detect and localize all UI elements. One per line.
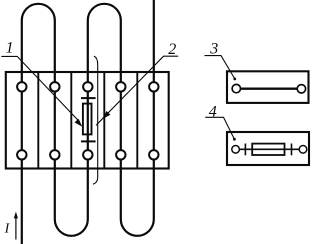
arrowhead leader 2 — [103, 111, 111, 119]
weld tick lower — [81, 140, 96, 142]
arrowhead current — [14, 212, 18, 219]
leader line for label 1 — [1, 56, 80, 122]
link body 4 (plate of link with fuse insert) — [227, 132, 309, 165]
leader line for label 3 — [205, 56, 235, 79]
fuse element 2 (narrow neck insert on strip 3) — [83, 104, 92, 135]
slit line (divider between strip 1 and 2) — [37, 72, 39, 169]
hole top row strip 3 — [83, 82, 92, 91]
link body 3 (plate of single link) — [227, 71, 309, 103]
svg-text:2: 2 — [168, 41, 176, 58]
hole top row strip 1 — [17, 82, 26, 91]
svg-text:1: 1 — [6, 40, 14, 57]
brace bracket marking strip 3 — [93, 56, 98, 184]
hole bottom row strip 3 — [83, 150, 92, 159]
slit line (divider between strip 3 and 4) — [103, 72, 105, 169]
svg-text:4: 4 — [209, 103, 217, 120]
leader line for label 4 — [205, 117, 234, 138]
hole left link 3 — [232, 84, 240, 92]
plate body 1 (perforated contact plate) — [6, 72, 169, 169]
leader dot 3 — [233, 78, 236, 81]
weld tick left link 4 — [244, 144, 246, 156]
hole top row strip 2 — [50, 82, 59, 91]
conductor centerline link 4 — [240, 148, 300, 150]
hole left link 4 — [232, 146, 240, 154]
hole bottom row strip 4 — [116, 150, 125, 159]
svg-text:3: 3 — [209, 41, 218, 58]
hole bottom row strip 1 — [17, 150, 26, 159]
leader dot 4 — [233, 138, 236, 141]
hole right link 3 — [297, 85, 305, 93]
hole bottom row strip 2 — [50, 150, 59, 159]
arrowhead leader 1 — [75, 119, 83, 127]
slit line (divider between strip 4 and 5) — [136, 72, 138, 169]
wire serpentine fuse ribbon (entry lead, arches, hairpin loops, exit lead) — [22, 0, 154, 244]
fuse body link 4 — [252, 144, 284, 155]
hole top row strip 5 — [149, 82, 158, 91]
weld tick upper — [81, 97, 96, 99]
hole top row strip 4 — [116, 82, 125, 91]
slit line (divider between strip 2 and 3) — [70, 72, 72, 169]
hole bottom row strip 5 — [149, 150, 158, 159]
current arrow I — [15, 217, 17, 240]
leader line for label 2 — [96, 56, 178, 125]
weld tick right link 4 — [291, 144, 293, 156]
hole right link 4 — [299, 146, 307, 154]
conductor bar link 3 — [241, 88, 298, 90]
